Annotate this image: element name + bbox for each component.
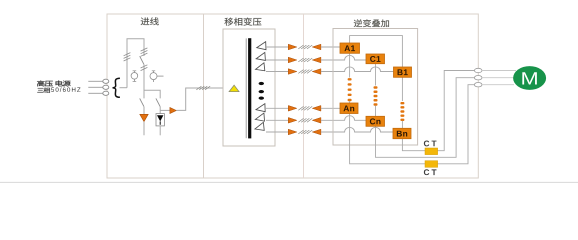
secondary winding W6 [254,122,265,132]
current transformer CT2 [425,161,438,168]
wire Bn top stub [401,121,403,129]
wire An top stub [349,101,351,103]
power cell An [340,103,358,114]
wire winding row to C1 [266,59,288,61]
label CT2 [424,169,437,175]
wire phase A output via CT2 [350,85,475,164]
cable head triangle down [140,114,148,121]
current transformer CT1 [425,148,438,155]
switch QS1 blade [140,56,144,64]
section divider 1 [203,14,205,178]
drawout marks wire2 top [141,48,148,51]
wire tap to feeder arrow [160,109,170,111]
arrester F1 box [156,114,164,126]
power cell B1 [394,67,412,77]
wire feed to cell A1 [321,46,340,48]
wire to triangle [143,107,145,115]
fiber arrow pair A1 [288,44,321,50]
outer cabinet box [107,14,478,178]
wire winding row to An [266,107,288,109]
power cell Bn [393,128,411,138]
transformer box [223,29,275,146]
secondary winding W4 [255,104,266,114]
page rule line [0,181,578,183]
wire winding row to Bn [266,131,288,133]
winding continuation dots [259,82,264,100]
wire C1 bottom riser [375,64,377,86]
wire Cn top stub [375,106,377,117]
label three-phase 三相 [37,88,50,93]
wire A1 bottom riser [349,53,351,77]
node terminal circles [103,79,109,95]
secondary winding W3 [254,63,265,73]
wire riser 2 upper [143,39,145,56]
label incoming line 进线 [141,17,159,25]
wire feed to cell Bn [321,127,393,132]
wire column dots A [348,78,352,101]
cable marks on feeder [196,86,210,90]
wire brace to riser [120,87,128,89]
transformer core bar [246,38,251,138]
fiber arrow pair An [288,106,321,112]
fiber arrow pair B1 [288,69,321,75]
secondary winding W2 [255,52,266,62]
motor M [513,66,546,90]
wire stub below arrester [159,126,161,135]
primary arrow yellow [229,85,239,92]
wire winding row to B1 [266,71,288,73]
feeder arrow right [170,108,176,114]
PT symbol A [131,71,138,82]
power cell Cn [366,116,385,126]
wire branch to arrester [144,90,160,98]
wire top loop [127,38,145,40]
wire feed to cell An [321,107,340,109]
wire column dots B [400,102,404,121]
secondary winding W1 [256,42,267,52]
fiber arrow pair Bn [288,129,321,135]
wire column dots C [374,86,378,105]
wire phase C output [376,78,475,158]
label CT1 [424,141,437,147]
wire feed to cell Cn [321,116,366,121]
wire stub below triangle [143,122,145,136]
node motor terminal circles [474,68,482,87]
secondary winding W5 [254,113,265,123]
wire into arrester [159,107,161,114]
section divider 2 [303,14,305,178]
PT symbol B [150,71,164,82]
power cell A1 [340,43,360,53]
wire feed to cell B1 [321,67,394,72]
wire feed to cell C1 [321,55,366,60]
switch QF1 blade [140,98,144,106]
wire winding row to Cn [266,119,288,121]
switch QF2 blade [156,98,160,106]
label HV source 高压电源 [37,81,70,87]
node source phase leads [88,81,103,93]
wire phase B output via CT1 [402,71,474,151]
drawout marks wire1 [124,53,131,56]
brace bundling phases [113,78,120,97]
fiber arrow pair Cn [288,118,321,124]
wire feeder to transformer [176,88,223,110]
wire terminals to motor [482,71,516,85]
wire riser 2 middle [143,65,145,99]
cell cabinet box [333,29,418,146]
power cell C1 [366,54,385,64]
wire winding row to A1 [266,46,288,48]
drawout marks wire2 lower [141,65,148,68]
fiber arrow pair C1 [288,57,321,63]
wire A1 top to B1 top [350,36,403,67]
label 50/60HZ [51,87,80,92]
wire B1 bottom riser [401,77,403,101]
label inverter stack 逆变叠加 [354,19,389,27]
label phase-shift transformer 移相变压 [225,18,262,26]
wire riser 1 [126,39,128,88]
